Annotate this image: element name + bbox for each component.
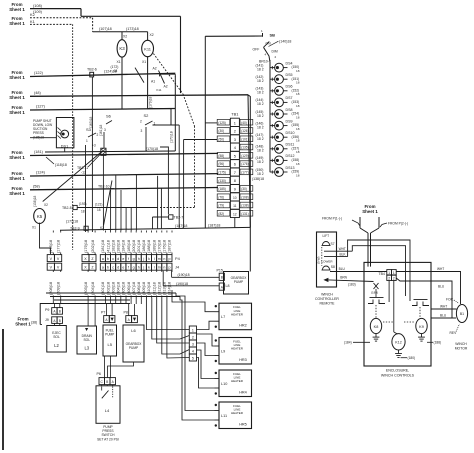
svg-text:(101): (101) (241, 137, 248, 141)
wire dashed vertical x195 (194, 126, 196, 208)
wire to TB3-2 (152, 298, 190, 340)
svg-text:OFF: OFF (253, 48, 260, 52)
wire enclosure to motor wht (431, 308, 457, 310)
wire (124) (30, 174, 218, 176)
svg-text:SET AT 20 PSI: SET AT 20 PSI (97, 438, 119, 442)
svg-text:P4: P4 (175, 256, 181, 261)
svg-text:h: h (138, 265, 140, 269)
wire relay feed (107) (93, 31, 148, 33)
wire right bus corner (248, 95, 250, 272)
svg-text:TB2-7: TB2-7 (174, 216, 184, 220)
svg-text:L3: L3 (84, 346, 89, 351)
svg-text:PRESS: PRESS (33, 131, 44, 135)
ground K12 (398, 350, 400, 354)
svg-text:(124): (124) (36, 171, 46, 175)
svg-text:TB4: TB4 (379, 272, 385, 276)
svg-text:(187)18: (187)18 (208, 224, 220, 228)
wire TB3-1 to L7 bottom (197, 321, 215, 329)
wire to TB3-4 (162, 298, 190, 355)
svg-text:(107)18: (107)18 (99, 27, 112, 31)
symbol splice X (374, 283, 379, 289)
wire vertical x168 (160, 147, 168, 214)
svg-text:SOL: SOL (83, 338, 90, 342)
svg-text:18 2: 18 2 (257, 91, 264, 95)
svg-text:2: 2 (393, 276, 395, 280)
wire stubs below J4 (52, 270, 54, 272)
svg-text:HEATER: HEATER (231, 379, 244, 383)
wire (58) (30, 188, 218, 190)
svg-text:L5: L5 (107, 342, 112, 347)
svg-text:L9: L9 (221, 350, 225, 354)
wire feed funnel (359, 217, 361, 228)
svg-text:2: 2 (234, 129, 236, 134)
svg-text:2: 2 (192, 335, 194, 339)
svg-text:12: 12 (233, 212, 237, 216)
svg-text:REMOTE: REMOTE (320, 302, 336, 306)
svg-text:(82): (82) (218, 212, 224, 216)
svg-text:(118)18: (118)18 (55, 163, 67, 167)
svg-text:(179)18: (179)18 (84, 240, 88, 253)
svg-text:B: B (221, 276, 223, 280)
indicator lamp DS9 (275, 121, 284, 130)
wire (190)18 to P15 B (172, 276, 220, 278)
svg-text:HR3: HR3 (239, 358, 247, 362)
label TB2-11/-12 callout (88, 154, 101, 168)
wire TB4-2 drop (388, 281, 390, 302)
wire X to contact (375, 289, 377, 297)
svg-text:j: j (142, 257, 144, 261)
svg-text:18 2: 18 2 (257, 114, 264, 118)
wire right vertical x180 (180, 16, 182, 93)
wire to L7 top (171, 290, 173, 298)
svg-text:Sheet 1: Sheet 1 (15, 322, 31, 327)
solenoid L2 ejector (47, 326, 67, 353)
svg-text:(200)18: (200)18 (132, 240, 136, 253)
svg-text:SOL: SOL (53, 335, 60, 339)
svg-text:d: d (117, 257, 119, 261)
svg-text:(138)18: (138)18 (252, 177, 264, 181)
wire (48) (30, 95, 248, 97)
wire TB4 to K12 (393, 281, 395, 332)
svg-text:(171)18: (171)18 (66, 220, 78, 224)
svg-text:f: f (128, 257, 129, 261)
svg-text:SWITCH: SWITCH (101, 433, 115, 437)
svg-text:(411)18: (411)18 (106, 240, 110, 253)
heater HR4 L10 (219, 370, 252, 397)
svg-text:HEATER: HEATER (231, 411, 244, 415)
svg-text:(176)18: (176)18 (163, 240, 167, 253)
wire S2 pole drop (145, 127, 147, 151)
svg-text:(175): (175) (218, 170, 225, 174)
svg-text:2: 2 (140, 120, 142, 124)
wire dash K8-K9 link (383, 321, 394, 323)
ground K9 (421, 334, 423, 338)
wire vertical n to 277 (171, 271, 173, 278)
svg-text:(129): (129) (241, 154, 248, 158)
svg-text:(58): (58) (33, 184, 40, 188)
wire lamp bus (264, 47, 271, 172)
svg-text:(161)18: (161)18 (99, 124, 103, 136)
svg-text:CONTROLLER: CONTROLLER (315, 297, 339, 301)
wire K3 top pin (121, 32, 123, 40)
wire loop inner (352, 246, 405, 296)
svg-text:2: 2 (388, 276, 390, 280)
svg-text:L10: L10 (221, 382, 227, 386)
svg-text:7: 7 (234, 170, 236, 175)
svg-text:DIM: DIM (272, 50, 278, 54)
relay coil K3 (117, 40, 127, 57)
wire long vertical x204 (204, 36, 206, 228)
svg-text:BLK: BLK (340, 252, 347, 256)
svg-text:a: a (102, 265, 104, 269)
svg-text:X1: X1 (142, 60, 146, 64)
svg-text:18: 18 (296, 115, 300, 119)
svg-text:g: g (133, 257, 135, 261)
wire P6 to L4 (101, 385, 103, 386)
svg-text:SB: SB (270, 33, 276, 38)
svg-text:18: 18 (296, 81, 300, 85)
svg-text:(183): (183) (348, 283, 356, 287)
svg-text:L8: L8 (226, 284, 230, 288)
svg-text:m: m (158, 257, 161, 261)
svg-text:(185): (185) (218, 187, 225, 191)
svg-text:Sheet 1: Sheet 1 (9, 191, 25, 196)
wire SB feed (205, 35, 262, 37)
svg-text:(178)18: (178)18 (49, 240, 53, 253)
svg-text:-12: -12 (81, 171, 86, 175)
svg-text:X2: X2 (150, 33, 154, 37)
wire controller out BLK (324, 256, 348, 258)
svg-text:h: h (138, 257, 140, 261)
svg-text:L4: L4 (105, 408, 110, 413)
wire K1 dashed (30, 23, 73, 25)
svg-text:TB1: TB1 (231, 112, 238, 117)
svg-text:(5-W): (5-W) (317, 257, 321, 265)
wire stubs above P4 (52, 231, 54, 233)
svg-text:FOR.: FOR. (446, 298, 454, 302)
svg-text:p: p (168, 265, 170, 269)
svg-text:(189)18: (189)18 (152, 240, 156, 253)
svg-text:TB2-8: TB2-8 (62, 206, 72, 210)
pump L5 fuel (103, 325, 117, 356)
connector J4 pin row (47, 263, 54, 270)
svg-text:(177)18: (177)18 (56, 240, 60, 253)
wire drops from buses (52, 298, 54, 305)
svg-text:WINCH: WINCH (321, 293, 333, 297)
svg-text:18 2: 18 2 (257, 125, 264, 129)
svg-text:BLU: BLU (440, 314, 447, 318)
wire L3 drops (87, 304, 89, 326)
box pump shutdown lamp DS1 (56, 118, 74, 148)
wire to TB3-1 (146, 298, 189, 330)
svg-text:f: f (128, 265, 129, 269)
svg-text:(138)18: (138)18 (33, 195, 37, 207)
svg-text:(170)18: (170)18 (170, 131, 174, 143)
svg-text:18: 18 (97, 208, 101, 212)
indicator lamp DS12 (275, 156, 284, 165)
wire TB3-4 to HR4 top (197, 350, 215, 379)
label (118)18 callout (46, 157, 54, 164)
svg-text:HR5: HR5 (239, 423, 247, 427)
wire bottom bus riser (40, 304, 130, 325)
wire TB1-12 to bus (234, 218, 236, 228)
terminal TB2-6 (90, 72, 94, 77)
svg-text:Sheet 1: Sheet 1 (9, 75, 25, 80)
svg-text:(177): (177) (241, 170, 248, 174)
svg-text:k: k (148, 257, 150, 261)
wire S6 drop to terminal (103, 132, 105, 148)
svg-text:L2: L2 (54, 343, 59, 348)
svg-text:K5: K5 (37, 214, 43, 219)
indicator lamp DS5 (275, 75, 284, 84)
wire to TB3-3 (157, 298, 190, 344)
svg-text:(108): (108) (241, 195, 248, 199)
svg-text:c: c (112, 257, 114, 261)
wire K5 X1 drop (40, 223, 51, 254)
svg-text:1: 1 (234, 120, 236, 125)
svg-text:(140)18: (140)18 (279, 40, 291, 44)
svg-text:(190)18: (190)18 (178, 273, 190, 277)
svg-text:(188): (188) (434, 341, 442, 345)
svg-text:(121): (121) (95, 203, 102, 207)
svg-text:HEATER: HEATER (231, 347, 244, 351)
svg-text:Sheet 1: Sheet 1 (362, 209, 378, 214)
svg-text:(190)18: (190)18 (176, 282, 188, 286)
wire vertical x157 (152, 217, 154, 229)
svg-text:(125): (125) (218, 121, 225, 125)
contact K8 upper (368, 300, 373, 304)
svg-text:1: 1 (192, 328, 194, 332)
wire enclosure to motor blu (431, 317, 456, 319)
wire TB3-3 to HR3 bottom (197, 343, 215, 356)
wire K3 X1 drop (121, 57, 123, 109)
terminal TB2-7 (153, 216, 169, 218)
svg-text:3: 3 (192, 342, 194, 346)
svg-text:(184)18: (184)18 (122, 240, 126, 253)
wire TB3-2 to HR3 top (197, 334, 215, 346)
svg-text:K1: K1 (30, 19, 35, 24)
heater HR2 L7 (219, 303, 252, 330)
box winch controller remote (317, 232, 337, 287)
svg-text:(50): (50) (218, 137, 224, 141)
svg-text:K11: K11 (144, 46, 152, 51)
svg-text:(181)18: (181)18 (101, 240, 105, 253)
wire right bus x250 (248, 95, 250, 228)
svg-text:(187)18: (187)18 (175, 224, 187, 228)
svg-text:L11: L11 (221, 414, 227, 418)
box enclosure winch controls (364, 262, 431, 366)
wire (181) (30, 153, 218, 155)
wire (108) from sheet 1 (30, 8, 81, 10)
svg-text:(79): (79) (218, 204, 224, 208)
svg-text:P15: P15 (217, 269, 223, 273)
svg-text:6: 6 (234, 162, 236, 167)
svg-text:X1: X1 (32, 226, 36, 230)
indicator lamp DS4 (275, 63, 284, 72)
svg-text:9: 9 (234, 187, 236, 192)
svg-text:HR4: HR4 (239, 391, 247, 395)
svg-text:10: 10 (233, 196, 237, 200)
svg-text:(138): (138) (241, 204, 248, 208)
svg-text:FROM P(1-(-(: FROM P(1-(-( (322, 217, 343, 221)
svg-text:(185)18: (185)18 (127, 240, 131, 253)
svg-text:(186)18: (186)18 (142, 240, 146, 253)
svg-text:n: n (163, 257, 165, 261)
svg-text:1: 1 (393, 271, 395, 275)
svg-text:(180): (180) (408, 356, 416, 360)
wire (122) (30, 73, 175, 76)
contact K9 upper (412, 302, 417, 306)
svg-text:K8: K8 (374, 325, 379, 329)
svg-text:ENCLOSURE,: ENCLOSURE, (386, 369, 409, 373)
ground K8 (375, 334, 377, 338)
svg-text:Sheet 1: Sheet 1 (9, 176, 25, 181)
motor winch B1 (456, 305, 467, 323)
svg-text:BLU: BLU (339, 267, 346, 271)
svg-text:5: 5 (234, 153, 236, 158)
wire K5 diagonal to terminal (43, 151, 103, 202)
svg-text:A2: A2 (153, 67, 157, 71)
wire K11 top pin (147, 32, 149, 41)
svg-text:K11: K11 (157, 88, 162, 92)
svg-text:(201)18: (201)18 (137, 240, 141, 253)
wire bus y300 (54, 299, 130, 301)
svg-text:X2: X2 (123, 35, 127, 39)
svg-text:a: a (102, 257, 104, 261)
motor L6 gearbox pump (123, 325, 144, 362)
svg-text:WHT: WHT (437, 267, 444, 271)
svg-text:(188)18: (188)18 (147, 240, 151, 253)
svg-text:S6: S6 (106, 114, 112, 119)
svg-text:WINCH CONTROLS: WINCH CONTROLS (381, 374, 415, 378)
svg-text:X2: X2 (44, 203, 48, 207)
svg-text:P6: P6 (97, 372, 101, 376)
svg-text:18 2: 18 2 (257, 160, 264, 164)
svg-text:B1: B1 (460, 312, 464, 316)
svg-text:(38): (38) (31, 321, 37, 325)
svg-text:(30): (30) (218, 129, 224, 133)
relay coil K8 (370, 318, 381, 333)
wire TB2 bus to (187) (60, 227, 251, 230)
wire vertical x184 (183, 140, 185, 229)
svg-text:3: 3 (104, 128, 106, 132)
wire dash contact to K9 (419, 307, 421, 318)
svg-text:4: 4 (192, 349, 194, 353)
svg-text:P8: P8 (124, 311, 128, 315)
svg-text:Sheet 1: Sheet 1 (9, 7, 25, 12)
svg-text:A1: A1 (151, 80, 155, 84)
wire L5 to P6 (104, 356, 106, 378)
svg-text:18 2: 18 2 (257, 149, 264, 153)
wire dashed horiz to TB2-8 (160, 207, 195, 209)
svg-text:18: 18 (296, 162, 300, 166)
svg-text:(130): (130) (218, 179, 225, 183)
wire dash contact to K8 (375, 305, 377, 318)
svg-text:HEATER: HEATER (231, 312, 244, 316)
svg-text:18: 18 (296, 104, 300, 108)
svg-text:S7: S7 (331, 242, 335, 246)
svg-text:BLU: BLU (438, 285, 445, 289)
svg-text:B: B (106, 380, 108, 384)
svg-text:(135): (135) (241, 146, 248, 150)
svg-text:18: 18 (296, 173, 300, 177)
svg-text:5: 5 (192, 356, 194, 360)
svg-text:S8: S8 (331, 265, 335, 269)
relay coil K12 (392, 334, 405, 350)
relay coil K5 (34, 209, 46, 224)
svg-text:k: k (148, 265, 150, 269)
svg-text:TB2-6: TB2-6 (87, 68, 97, 72)
wire to HR5 top (176, 293, 215, 411)
svg-text:11: 11 (233, 204, 237, 208)
solenoid L3 drain (77, 326, 97, 354)
svg-text:18 2: 18 2 (257, 102, 264, 106)
wire controller arrow BRN (323, 278, 328, 282)
svg-text:PUMP: PUMP (105, 333, 114, 337)
svg-text:18: 18 (296, 69, 300, 73)
indicator lamp DS6 (275, 86, 284, 95)
svg-text:MOTOR: MOTOR (455, 347, 468, 351)
wire K2 dashed drop to K3 coil (92, 18, 94, 32)
wire vertical x161 (160, 188, 162, 229)
svg-text:18: 18 (81, 210, 85, 214)
indicator lamp DS13 (275, 168, 284, 177)
svg-text:(76): (76) (218, 195, 224, 199)
svg-text:Sheet 1: Sheet 1 (9, 21, 25, 26)
wire to TB1-1 (205, 122, 217, 124)
wire dashed diagonal K11 to TB2 (153, 54, 183, 95)
svg-text:K9: K9 (419, 325, 424, 329)
svg-text:Sheet 1: Sheet 1 (9, 110, 25, 115)
svg-text:(170)18: (170)18 (146, 147, 158, 151)
wire loop outer (348, 240, 410, 301)
svg-text:B: B (59, 319, 61, 323)
wire (127) (30, 109, 175, 111)
wire S7-S8 link dashed (321, 247, 323, 266)
svg-text:d: d (117, 265, 119, 269)
wire TB4 to motor top (396, 272, 460, 305)
wire P9 drops (53, 304, 55, 308)
wire controller out WHT (324, 250, 352, 252)
wire vertical x85 (85, 145, 87, 232)
svg-text:PUMP: PUMP (234, 280, 243, 284)
svg-text:18: 18 (296, 127, 300, 131)
svg-text:c: c (112, 265, 114, 269)
relay coil K9 (416, 318, 427, 333)
wire bus y293 (46, 292, 176, 294)
lamp DS1 (61, 130, 69, 138)
border line bottom left (2, 329, 4, 450)
wires into connector band (102, 155, 104, 230)
svg-text:(96): (96) (218, 162, 224, 166)
svg-text:TB2-11: TB2-11 (77, 166, 88, 170)
wire P8 drops (128, 304, 130, 316)
svg-text:18: 18 (114, 69, 118, 73)
svg-text:3: 3 (141, 129, 143, 133)
heater HR5 L11 (219, 402, 252, 429)
svg-text:PUMP: PUMP (129, 346, 138, 350)
svg-text:(182)18: (182)18 (111, 240, 115, 253)
terminal strip TB3 (189, 326, 196, 333)
svg-text:e: e (122, 257, 124, 261)
heater HR3 L9 (219, 338, 252, 365)
wire K11 X1 drop (148, 57, 171, 125)
wire (190)18 to P15 A (163, 285, 219, 287)
wire controller out BLU (330, 271, 387, 273)
svg-text:e: e (122, 265, 124, 269)
svg-text:A2: A2 (164, 85, 168, 89)
svg-text:HR2: HR2 (239, 324, 247, 328)
